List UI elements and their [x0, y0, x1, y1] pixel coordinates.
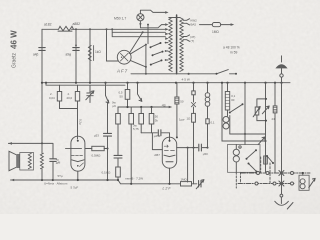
- node dots on B+ bus: [126, 106, 152, 108]
- wire right verticals: [266, 83, 282, 173]
- resistor R15: [181, 182, 192, 186]
- capacitor C4: [104, 133, 112, 136]
- potentiometer P1: [257, 99, 266, 121]
- resistor R17: [273, 106, 277, 113]
- resistor R18 chain: [193, 83, 195, 184]
- wire second bus: [46, 83, 125, 86]
- coil L3 primary: [28, 153, 31, 169]
- voltage selector arrow: [309, 178, 315, 187]
- wire B+ bus: [118, 106, 169, 108]
- wire v3 anode drops: [187, 148, 189, 182]
- resistor R9: [117, 107, 119, 155]
- wire box top feed: [244, 134, 246, 145]
- tap bracket MW: [183, 35, 189, 41]
- resistor R7: [92, 146, 104, 150]
- resistor R11: [130, 107, 132, 184]
- wire grid link V3: [141, 133, 169, 150]
- speaker: [9, 151, 17, 170]
- wire AVC vertical: [107, 103, 109, 180]
- core line: [176, 15, 178, 74]
- switch S6: [138, 83, 142, 102]
- tube V1 AF7: [117, 50, 131, 64]
- switch S8: [258, 137, 265, 145]
- capacitor C10: [206, 119, 209, 124]
- wire det line2: [222, 83, 266, 141]
- coil L6: [223, 117, 229, 123]
- resistor R6: [77, 85, 79, 139]
- node dots on anode line: [187, 147, 209, 149]
- capacitor C7: [199, 144, 202, 151]
- wire left vertical: [41, 29, 43, 143]
- switch S4 blade: [217, 70, 237, 74]
- switch S9: [247, 150, 257, 159]
- capacitor C9: [50, 159, 56, 162]
- wire coil top link: [169, 17, 180, 19]
- switch box unit: [228, 145, 261, 173]
- switch S1 contacts: [150, 42, 169, 49]
- contact row B: [238, 183, 294, 185]
- switch S12: [249, 164, 257, 172]
- switch S2 contacts: [152, 50, 169, 56]
- contact row A: [241, 172, 310, 174]
- tube V3 output: [162, 137, 176, 168]
- wire box bottom dashes: [235, 172, 237, 188]
- switch S3 contacts: [150, 59, 168, 66]
- resistor R12: [140, 107, 142, 133]
- arrowheads coil taps: [165, 11, 168, 40]
- switch S10: [262, 106, 269, 114]
- resistor R13: [151, 107, 153, 133]
- wire lamp leads: [140, 10, 165, 28]
- wire vertical x90: [89, 29, 91, 82]
- resistor R5: [60, 85, 78, 108]
- trimmer C3: [87, 85, 93, 102]
- wire bottom link: [131, 73, 217, 75]
- wire main bus: [42, 82, 290, 84]
- resistor R10: [116, 167, 121, 177]
- wire bottom bus: [11, 180, 197, 184]
- coil L4 secondary: [41, 143, 43, 180]
- capacitor C1: [39, 48, 45, 51]
- ground anchor: [281, 173, 283, 194]
- tap bracket KW: [183, 19, 189, 25]
- resistor R3: [88, 46, 93, 61]
- switch S5: [106, 83, 109, 103]
- transformer T2 mains: [302, 173, 304, 175]
- coil L2 secondary: [180, 18, 183, 72]
- resistor R16: [227, 83, 229, 116]
- switch S7: [230, 104, 243, 112]
- trimmer C8: [199, 181, 201, 187]
- wire tube fan: [131, 45, 146, 74]
- wire x245: [244, 83, 246, 134]
- wire speaker feed: [8, 143, 53, 158]
- lamp dial: [137, 14, 144, 21]
- title Graetz 46W: [10, 30, 19, 68]
- earth aerial symbol: [281, 56, 283, 83]
- resistor R19: [264, 156, 268, 164]
- wire x148 vertical: [147, 25, 149, 44]
- resistor R8: [127, 83, 129, 107]
- wire AVC taps: [112, 29, 165, 36]
- capacitor C5: [114, 155, 122, 158]
- node dots on main bus: [41, 82, 283, 84]
- coil L5 choke: [207, 83, 209, 148]
- capacitor C2: [73, 48, 79, 51]
- resistor R1: [58, 26, 74, 31]
- resistor R14: [176, 83, 178, 138]
- node dots on bottom bus: [41, 179, 171, 185]
- capacitor C6: [158, 130, 161, 136]
- wire vertical x76: [75, 29, 77, 82]
- wire anode diagonal: [129, 32, 143, 53]
- wire dashed links: [260, 157, 262, 173]
- wire top bus A: [42, 28, 165, 30]
- resistor R4 output link: [200, 24, 231, 26]
- wire det line1: [230, 133, 266, 135]
- coil L7: [233, 149, 239, 155]
- wire anode V3: [177, 147, 208, 149]
- tube V2 triode: [71, 136, 85, 171]
- wire grid drop: [107, 29, 118, 61]
- coil L1 antenna: [169, 18, 172, 72]
- switch S13: [267, 156, 273, 163]
- transformer T1 frame: [20, 153, 34, 171]
